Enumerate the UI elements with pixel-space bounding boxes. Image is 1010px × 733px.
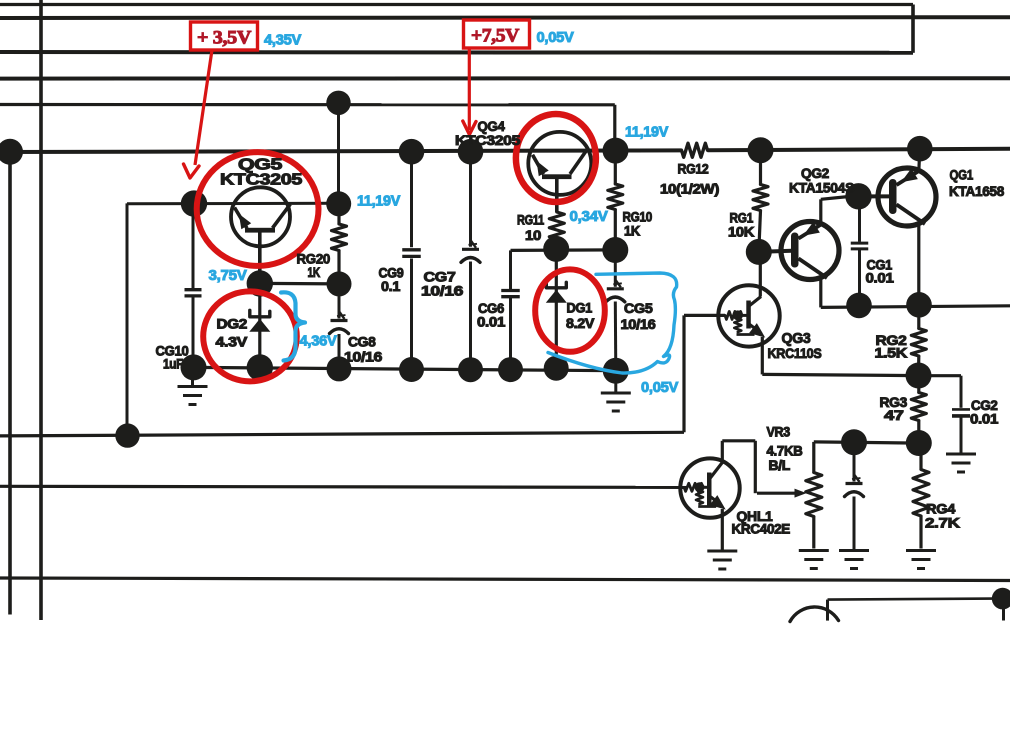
svg-text:10: 10: [525, 228, 541, 243]
svg-text:QG4: QG4: [478, 118, 505, 134]
svg-text:KTA1504S: KTA1504S: [789, 180, 854, 196]
svg-text:0,05V: 0,05V: [537, 29, 574, 46]
svg-text:10/16: 10/16: [621, 317, 657, 332]
svg-text:+7,5V: +7,5V: [471, 26, 520, 47]
svg-text:B/L: B/L: [769, 458, 791, 473]
svg-text:DG1: DG1: [567, 301, 593, 316]
svg-text:CG5: CG5: [624, 301, 653, 316]
svg-text:1K: 1K: [308, 265, 321, 280]
svg-text:1.5K: 1.5K: [875, 345, 908, 361]
svg-text:10/16: 10/16: [421, 283, 464, 299]
svg-text:47: 47: [884, 407, 904, 423]
svg-text:KRC110S: KRC110S: [768, 345, 822, 361]
svg-text:1K: 1K: [624, 224, 641, 239]
svg-text:10K: 10K: [728, 225, 755, 240]
svg-text:RG10: RG10: [623, 210, 653, 225]
svg-text:QG1: QG1: [950, 167, 974, 183]
svg-text:0.01: 0.01: [866, 271, 895, 286]
svg-text:0.01: 0.01: [970, 412, 999, 427]
svg-text:RG11: RG11: [517, 213, 545, 228]
svg-text:11,19V: 11,19V: [625, 124, 668, 141]
svg-text:4.3V: 4.3V: [216, 334, 249, 350]
svg-text:10/16: 10/16: [344, 350, 383, 365]
svg-text:8.2V: 8.2V: [566, 316, 594, 331]
svg-text:KTC3205: KTC3205: [455, 133, 521, 148]
svg-text:4.7KB: 4.7KB: [767, 444, 804, 459]
svg-text:KTA1658: KTA1658: [949, 183, 1004, 199]
svg-text:CG8: CG8: [348, 335, 376, 350]
svg-text:KRC402E: KRC402E: [732, 522, 791, 537]
svg-text:11,19V: 11,19V: [357, 193, 400, 210]
svg-text:0.1: 0.1: [381, 279, 401, 294]
svg-text:0,05V: 0,05V: [641, 379, 678, 396]
svg-text:KTC3205: KTC3205: [220, 172, 302, 189]
svg-text:0,34V: 0,34V: [570, 208, 608, 225]
svg-text:10(1/2W): 10(1/2W): [660, 182, 719, 197]
svg-text:4,35V: 4,35V: [264, 32, 301, 49]
svg-text:1uF: 1uF: [163, 357, 183, 372]
svg-text:VR3: VR3: [767, 425, 791, 440]
svg-text:4,36V: 4,36V: [300, 333, 337, 350]
svg-text:DG2: DG2: [217, 316, 248, 332]
svg-text:2.7K: 2.7K: [925, 515, 960, 531]
svg-text:RG12: RG12: [678, 162, 709, 177]
svg-text:3,75V: 3,75V: [209, 267, 247, 284]
svg-text:RG1: RG1: [730, 211, 754, 226]
svg-text:0.01: 0.01: [477, 315, 506, 330]
svg-text:+ 3,5V: + 3,5V: [197, 28, 252, 49]
